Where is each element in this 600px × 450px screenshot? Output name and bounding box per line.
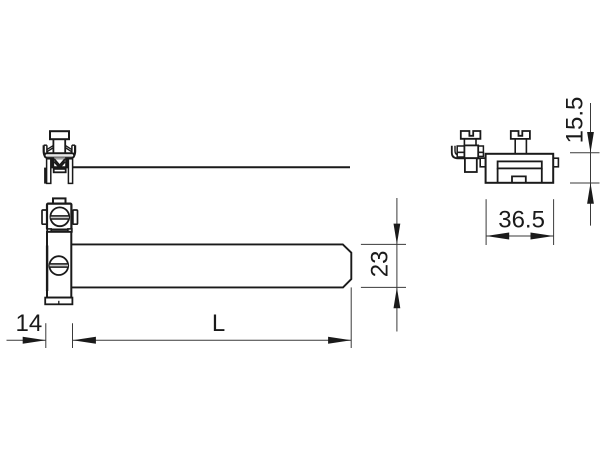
svg-text:14: 14 [16, 310, 43, 337]
svg-text:15.5: 15.5 [562, 97, 589, 144]
svg-text:23: 23 [366, 251, 393, 278]
svg-text:L: L [212, 310, 225, 337]
svg-text:36.5: 36.5 [498, 207, 545, 234]
